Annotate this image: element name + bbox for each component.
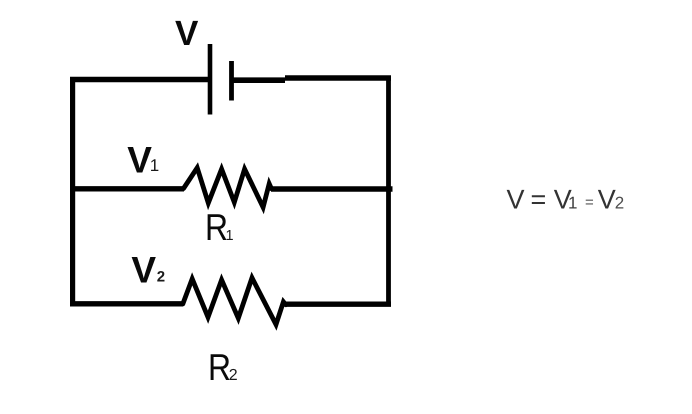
svg-text:R: R [208,346,231,388]
svg-text:1: 1 [568,194,577,213]
wire top-right horizontal to right rail [285,75,391,80]
svg-text:=: = [585,194,594,211]
svg-text:V: V [131,250,156,291]
svg-text:2: 2 [157,269,165,286]
wire top-left horizontal from left rail to battery [70,77,208,83]
svg-text:V: V [598,185,616,215]
wire middle-left horizontal from left rail to R1 [70,186,184,191]
wire from battery right plate, first segment [234,77,286,83]
resistor R1 zigzag [184,168,272,208]
svg-text:V: V [507,185,525,215]
wire left vertical rail [70,77,75,304]
wire bottom-right horizontal from R2 to right rail [286,302,392,307]
wire bottom-left horizontal from left rail to R2 [70,301,183,306]
wire middle-right horizontal from R1 to right rail [271,186,393,191]
svg-text:2: 2 [229,367,238,384]
svg-text:2: 2 [615,194,624,213]
battery V short plate (negative terminal) [229,61,234,101]
wire right vertical rail [386,76,391,304]
svg-text:V: V [127,140,152,181]
battery V long plate (positive terminal) [208,44,213,115]
resistor R2 zigzag [183,278,286,325]
svg-text:=: = [531,185,547,215]
svg-text:1: 1 [226,228,234,244]
svg-text:V: V [175,14,199,53]
svg-text:1: 1 [150,156,159,175]
